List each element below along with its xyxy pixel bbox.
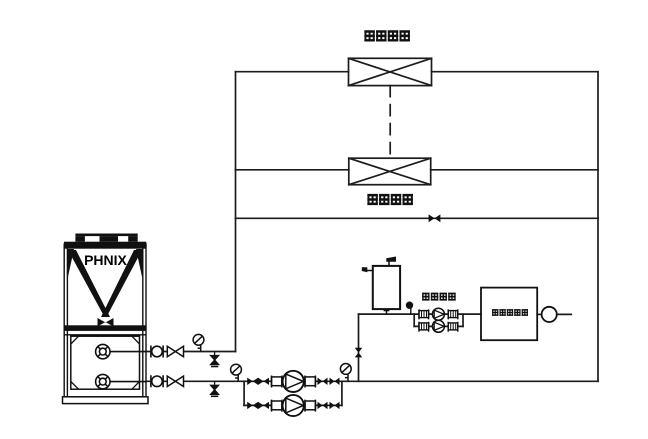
flexible joint pump P2 discharge (305, 400, 315, 412)
svg-text:PHNIX: PHNIX (84, 252, 127, 268)
wire circle outlet (557, 313, 572, 315)
heat pump V fan belt (68, 250, 110, 317)
wire left riser (235, 72, 237, 352)
pump P1 branch upper components left (247, 378, 269, 385)
label fan coil bottom (367, 194, 413, 205)
flexible joint pump P2 suction (272, 400, 282, 412)
wire pump loop right vertical (341, 381, 343, 405)
label in DHW box (492, 309, 528, 316)
small pump B (432, 320, 444, 332)
fan coil unit 1 (349, 58, 432, 85)
wire middle line right segment (431, 169, 598, 171)
wire top supply line right segment (432, 71, 599, 73)
heat pump cap blocks (75, 236, 85, 242)
heat pump top band (64, 242, 146, 249)
wire top supply line left segment (236, 71, 349, 73)
heat pump lower corner braces (71, 336, 140, 389)
heat pump divider band (64, 325, 146, 331)
heat pump upper flange connection (96, 344, 146, 358)
butterfly valve upper outlet (167, 346, 183, 356)
pump P2 branch lower components left (247, 402, 269, 409)
tank left cap (362, 267, 368, 272)
heat pump base plinth (63, 397, 149, 404)
expansion tank (366, 262, 400, 315)
valve on third line (429, 214, 441, 222)
tank bottom tick (384, 309, 390, 311)
wire middle line left segment (236, 169, 349, 171)
condensate dashed line (389, 86, 391, 159)
wire DHW horizontal line (359, 313, 482, 315)
heat pump outer frame (64, 244, 146, 397)
tank top air valve cap (386, 257, 396, 262)
small pump A (432, 308, 444, 320)
heat pump lower inner box (71, 336, 140, 389)
flexible joint pump P1 discharge (305, 376, 315, 388)
drain valve below upper line (211, 352, 219, 367)
drain valve below lower line (211, 381, 219, 396)
sensor lollipop before small pumps (406, 302, 412, 314)
flexible joint pump P1 suction (272, 376, 282, 388)
check valve and valve pump P2 discharge (318, 402, 340, 409)
flexible joint upper outlet (151, 346, 163, 358)
flexible joint small pump B discharge (448, 322, 458, 332)
check valve and valve pump P1 discharge (318, 378, 340, 385)
wire third horizontal line (236, 217, 599, 219)
pressure gauge lower line before pumps (231, 364, 242, 381)
pressure gauge on upper line (193, 334, 204, 351)
pressure gauge after pump group (340, 364, 351, 382)
wire heat pump upper outlet line (146, 351, 236, 353)
heat pump lower flange connection (96, 374, 146, 388)
wire right return drop (597, 72, 599, 382)
fan coil unit 2 (349, 158, 431, 185)
wire bottom main line (146, 380, 598, 382)
wire small pump loop lower branch (414, 325, 463, 327)
wire pump loop left vertical (243, 381, 245, 405)
label above small pumps (422, 293, 456, 301)
outlet circle (542, 307, 557, 322)
valve on DHW branch vertical (355, 348, 363, 358)
wire box to circle (537, 313, 541, 315)
flexible joint small pump A suction (419, 309, 429, 319)
pump P2 (283, 395, 304, 416)
DHW unit box (481, 288, 537, 341)
heat pump corner braces top (68, 249, 143, 279)
flexible joint lower outlet (151, 375, 163, 387)
heat pump unit PHNIX (63, 234, 149, 404)
label fan coil top (364, 31, 410, 42)
butterfly valve lower outlet (167, 376, 183, 386)
flexible joint small pump A discharge (448, 309, 458, 319)
flexible joint small pump B suction (419, 322, 429, 332)
wire small pump loop verticals (414, 314, 463, 326)
wire pump loop lower branch (244, 404, 342, 406)
heat pump fan hub (98, 318, 114, 327)
heat pump top cap bar (75, 234, 137, 237)
heat pump PHNIX text (84, 252, 127, 268)
pump P1 (283, 371, 304, 392)
wire DHW branch vertical (358, 314, 360, 381)
